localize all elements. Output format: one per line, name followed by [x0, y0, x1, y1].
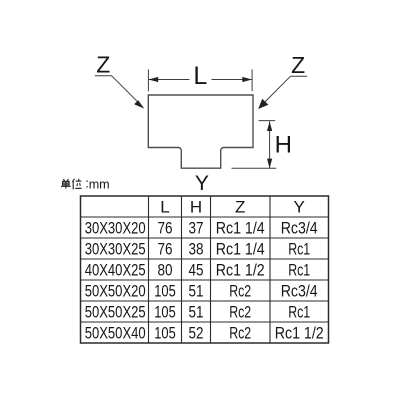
svg-text:50X50X25: 50X50X25 [85, 304, 146, 322]
svg-text:Rc1 1/4: Rc1 1/4 [216, 219, 265, 238]
L dimension arrowhead right [242, 77, 252, 82]
svg-text:L: L [193, 62, 207, 90]
svg-text:105: 105 [154, 303, 176, 322]
svg-text:Z: Z [235, 198, 245, 217]
H dimension extension line bottom [232, 167, 277, 169]
svg-text:Rc1: Rc1 [288, 303, 310, 322]
H dimension arrowhead top [267, 121, 272, 131]
unit note: kanji TAN (single) [61, 179, 71, 189]
L dimension line left segment [148, 79, 189, 81]
table row 6: 50X50X40 [85, 324, 324, 343]
svg-text:Rc2: Rc2 [229, 282, 251, 301]
svg-text:Z: Z [96, 52, 110, 78]
svg-text:Z: Z [291, 52, 305, 78]
svg-text:45: 45 [189, 261, 204, 280]
L dimension extension line right [251, 70, 253, 92]
svg-text:40X40X25: 40X40X25 [85, 262, 146, 280]
svg-text:H: H [190, 198, 202, 217]
svg-text:52: 52 [189, 324, 204, 343]
tee fitting body outline [148, 95, 253, 168]
L dimension line right segment [212, 79, 253, 81]
svg-text:Rc1 1/4: Rc1 1/4 [216, 240, 265, 259]
svg-text:Rc3/4: Rc3/4 [281, 282, 318, 301]
Z right underline and leader line [264, 76, 307, 103]
svg-text:37: 37 [189, 219, 204, 238]
svg-text:30X30X25: 30X30X25 [85, 241, 146, 259]
svg-text:105: 105 [154, 324, 176, 343]
svg-text:Rc1: Rc1 [288, 261, 310, 280]
svg-text:76: 76 [158, 240, 173, 259]
table row 1: 30X30X20 [85, 219, 318, 238]
svg-text:80: 80 [158, 261, 173, 280]
svg-text:Y: Y [195, 172, 209, 195]
svg-text:Rc1 1/2: Rc1 1/2 [275, 324, 324, 343]
svg-text:Rc1: Rc1 [288, 240, 310, 259]
svg-text:Rc2: Rc2 [229, 324, 251, 343]
svg-text:H: H [275, 132, 292, 159]
svg-text:mm: mm [89, 176, 110, 191]
svg-text:L: L [160, 198, 169, 217]
Z right leader arrowhead [258, 99, 268, 109]
svg-text:Rc1 1/2: Rc1 1/2 [216, 261, 265, 280]
svg-text:50X50X40: 50X50X40 [85, 325, 146, 343]
table outer border [81, 196, 329, 343]
svg-text:51: 51 [189, 282, 204, 301]
unit note: kanji I (position) [72, 179, 81, 190]
Z left leader arrowhead [134, 100, 144, 108]
table row 2: 30X30X25 [85, 240, 311, 259]
table header row [160, 198, 305, 217]
H dimension arrowhead bottom [267, 159, 272, 169]
L dimension arrowhead left [149, 77, 159, 82]
table vertical grid lines [149, 196, 271, 343]
Z left underline and leader line [95, 76, 139, 103]
table horizontal grid lines [81, 217, 329, 322]
svg-text:38: 38 [189, 240, 204, 259]
svg-text:51: 51 [189, 303, 204, 322]
table row 3: 40X40X25 [85, 261, 311, 280]
table row 5: 50X50X25 [85, 303, 311, 322]
svg-text:Rc2: Rc2 [229, 303, 251, 322]
H dimension line [269, 121, 271, 168]
svg-text:50X50X20: 50X50X20 [85, 283, 146, 301]
L dimension extension line left [147, 70, 149, 92]
svg-text:105: 105 [154, 282, 176, 301]
svg-text:76: 76 [158, 219, 173, 238]
svg-text:Rc3/4: Rc3/4 [281, 219, 318, 238]
svg-text:30X30X20: 30X30X20 [85, 220, 146, 238]
H dimension extension line top [259, 120, 276, 122]
svg-text:Y: Y [294, 198, 305, 217]
table row 4: 50X50X20 [85, 282, 318, 301]
